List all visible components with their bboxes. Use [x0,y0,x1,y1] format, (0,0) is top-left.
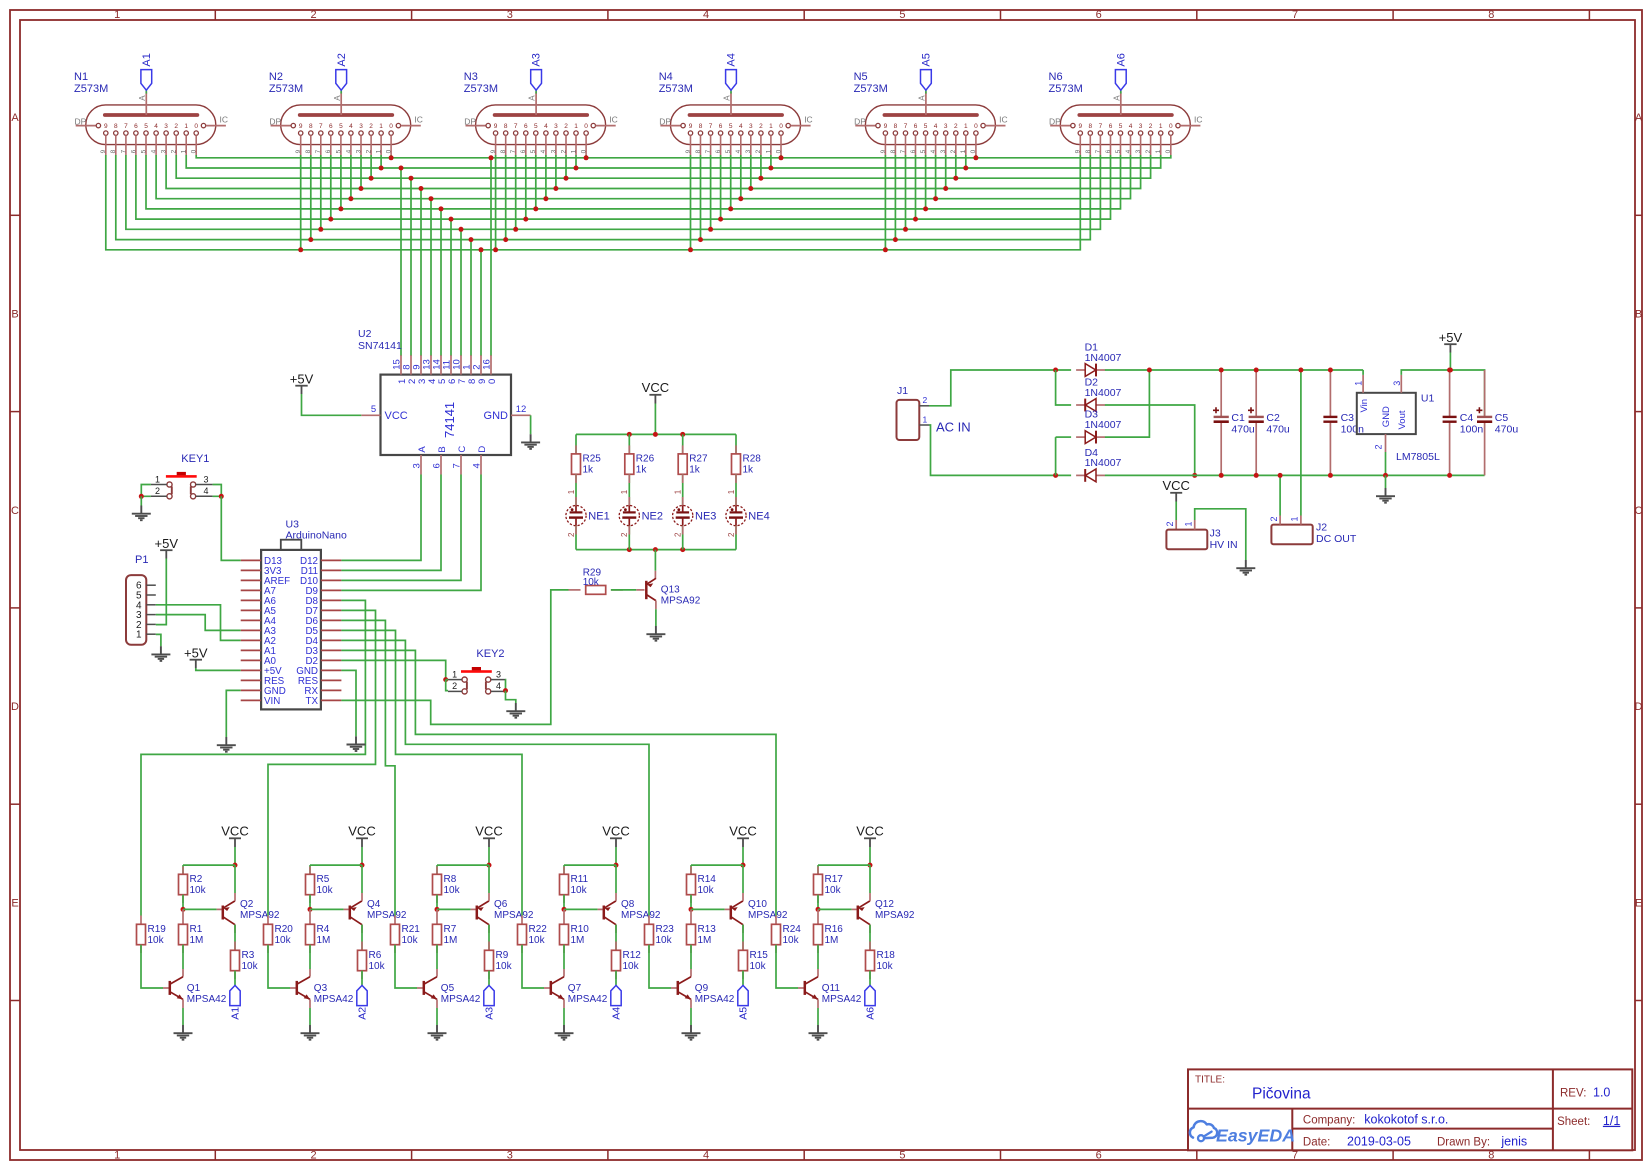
wire to R17 [817,865,819,874]
svg-text:7: 7 [1292,9,1298,21]
svg-text:MPSA42: MPSA42 [695,994,735,1005]
svg-text:5: 5 [899,1149,905,1161]
svg-text:4: 4 [151,149,158,153]
svg-text:7: 7 [900,149,907,153]
svg-text:3: 3 [550,149,557,153]
junction N3 digit 9 [493,247,498,252]
junction N2 digit 2 [369,176,374,181]
junction N3 digit 7 [513,227,518,232]
svg-text:4: 4 [540,149,547,153]
wire rail to R26 [628,434,630,454]
wire R14 to node [690,895,692,910]
svg-text:7: 7 [315,149,322,153]
svg-text:0: 0 [194,123,198,130]
wire node to Q4 base [310,908,344,910]
wire anode N4 [730,90,732,93]
svg-text:1M: 1M [317,935,331,946]
wire D2 to KEY2 [341,660,445,679]
resistor R29 [583,568,606,595]
svg-text:1k: 1k [743,465,755,476]
net flag A6 [1115,70,1126,91]
svg-text:2019-03-05: 2019-03-05 [1347,1134,1411,1148]
wire anode N6 [1120,90,1122,93]
resistor R12 [612,950,642,972]
wire R5 to node [309,895,311,910]
svg-text:A4: A4 [611,1007,623,1020]
wire D8 to R19 [141,600,365,915]
svg-text:Company:: Company: [1303,1114,1355,1126]
svg-text:A2: A2 [336,53,348,66]
svg-text:7: 7 [514,123,518,130]
svg-text:R15: R15 [750,950,769,961]
wire to R8 [436,865,438,874]
svg-text:DP: DP [659,116,671,126]
junction N2 digit 5 [338,206,343,211]
wire bus digit 8 to U2 [470,240,472,356]
wire node to Q12 base [818,908,852,910]
svg-text:3: 3 [1392,381,1402,386]
svg-text:12: 12 [516,404,527,415]
junction [680,432,685,437]
svg-text:Q4: Q4 [367,899,381,910]
svg-text:N2: N2 [269,71,283,83]
resistor R26 [625,454,655,476]
wire N3 pin 2 [565,155,567,178]
wire KEY1 to D13 [221,496,240,560]
svg-text:1: 1 [727,489,736,494]
wire R2 to node [182,895,184,910]
wire R13 to Q9 collector [690,945,692,969]
wire R11 to node [563,895,565,910]
capacitor C3 [1323,370,1364,475]
junction N3 digit 8 [503,237,508,242]
svg-text:8: 8 [1488,9,1494,21]
junction N5 digit 6 [913,217,918,222]
svg-text:6: 6 [1105,149,1112,153]
svg-text:MPSA92: MPSA92 [240,910,280,921]
svg-text:9: 9 [104,123,108,130]
svg-text:10k: 10k [783,935,800,946]
svg-text:1: 1 [960,149,967,153]
svg-text:4: 4 [544,123,548,130]
nixie tube N1 Z573M [75,93,229,156]
wire VCC to Q6 emitter [488,865,490,893]
wire D7 to R20 [268,610,376,915]
resistor R1 [179,924,204,946]
svg-text:0: 0 [970,149,977,153]
svg-text:A6: A6 [1115,53,1127,66]
svg-text:10k: 10k [583,577,600,588]
wire D10 to U2 C [341,475,461,581]
resistor R7 [433,924,458,946]
svg-text:C: C [11,505,19,517]
svg-text:D: D [1635,701,1643,713]
svg-text:16: 16 [482,359,493,370]
wire NE4 to rail [735,526,737,550]
svg-text:5: 5 [729,123,733,130]
wire R1 to Q1 collector [182,945,184,969]
svg-text:VCC: VCC [642,380,669,395]
svg-text:5: 5 [530,149,537,153]
push button KEY1 [151,453,213,499]
junction N4 digit 7 [708,227,713,232]
junction N2 digit 7 [318,227,323,232]
wire N2 pin 7 [320,155,322,229]
svg-text:+5V: +5V [184,646,208,661]
wire bus digit 3 to U2 [420,189,422,357]
svg-text:2: 2 [923,395,928,405]
wire N3 pin 6 [525,155,527,219]
junction N2 digit 8 [308,237,313,242]
svg-text:8: 8 [695,149,702,153]
junction [1447,473,1452,478]
svg-text:5: 5 [725,149,732,153]
svg-text:1N4007: 1N4007 [1085,419,1122,431]
junction [1219,368,1224,373]
net flag A4 [611,985,621,1005]
wire Q3 emitter to ground [309,1008,311,1025]
svg-text:2: 2 [1165,521,1175,526]
junction N3 digit 1 [574,166,579,171]
svg-text:10k: 10k [275,935,292,946]
svg-text:2: 2 [1145,149,1152,153]
svg-text:5: 5 [924,123,928,130]
svg-text:3: 3 [496,669,501,679]
ground block 3 [428,1025,447,1040]
junction U2 digit 5 [439,206,444,211]
svg-text:0: 0 [775,149,782,153]
svg-text:2: 2 [564,123,568,130]
title block texts [1195,1075,1620,1149]
svg-text:5: 5 [1115,149,1122,153]
svg-text:VCC: VCC [602,824,629,839]
svg-text:10k: 10k [825,885,842,896]
wire P1 pin1 to ground [156,634,161,646]
svg-text:7: 7 [510,149,517,153]
svg-text:VCC: VCC [385,410,408,422]
wire to ground sym [1385,475,1387,488]
svg-text:SN74141: SN74141 [358,340,402,352]
junction VCC block 4 [614,863,619,868]
svg-text:R17: R17 [825,874,844,885]
svg-text:6: 6 [1109,123,1113,130]
svg-text:5: 5 [335,149,342,153]
svg-text:R20: R20 [275,924,294,935]
wire Q2 collector to R3 [234,925,236,951]
junction [627,432,632,437]
driver IC U2 SN74141 [358,328,531,475]
svg-text:A: A [138,95,147,101]
svg-text:R1: R1 [190,924,203,935]
wire anode N5 [925,90,927,93]
net flag A2 [357,985,367,1005]
svg-text:J3: J3 [1210,528,1221,540]
wire N4 pin 5 [730,155,732,209]
transistor Q10 [731,899,788,925]
svg-text:1: 1 [1155,149,1162,153]
svg-text:4: 4 [345,149,352,153]
svg-text:10k: 10k [571,885,588,896]
bus wire digit 6 [136,155,1111,219]
wire U3 GND right [341,670,356,736]
wire TX to R29 [341,590,568,725]
svg-text:R7: R7 [444,924,457,935]
svg-text:1M: 1M [190,935,204,946]
svg-text:4: 4 [930,149,937,153]
wire rail to Vin [1362,370,1364,375]
resistor R21 [391,924,421,946]
svg-text:Q1: Q1 [187,983,201,994]
svg-text:10k: 10k [656,935,673,946]
wire anode N2 [340,90,342,93]
svg-text:VCC: VCC [1162,478,1189,493]
svg-text:1: 1 [620,489,629,494]
svg-text:8: 8 [110,149,117,153]
svg-text:470u: 470u [1266,423,1290,435]
svg-text:2: 2 [620,532,629,537]
svg-text:1: 1 [114,9,120,21]
ground block 5 [682,1025,701,1040]
svg-text:1M: 1M [825,935,839,946]
wire Q11 emitter to ground [817,1008,819,1025]
svg-text:A: A [528,95,537,101]
net flag A3 [531,70,542,91]
junction D2 GND [1192,473,1197,478]
wire VCC rail block 5 [691,864,743,866]
svg-text:J2: J2 [1316,522,1327,534]
wire D11 to U2 B [341,475,441,571]
wire N4 pin 7 [710,155,712,229]
resistor R14 [687,874,717,896]
junction N5 digit 2 [953,176,958,181]
wire P1 pin4 to A2 [156,605,241,641]
svg-text:NE1: NE1 [588,510,609,522]
resistor R19 [137,924,167,946]
transistor Q1 [170,977,227,1005]
junction N2 digit 9 [298,247,303,252]
junction N4 digit 6 [718,217,723,222]
junction N2 digit 6 [328,217,333,222]
svg-text:GND: GND [1381,406,1392,427]
wire R8 to node [436,895,438,910]
svg-text:470u: 470u [1231,423,1255,435]
wire to R14 [690,865,692,874]
svg-text:10k: 10k [623,961,640,972]
svg-text:9: 9 [299,123,303,130]
transistor Q2 [223,899,280,925]
wire rail to R25 [575,434,577,454]
wire NE1 to rail [575,526,577,550]
svg-text:6: 6 [910,149,917,153]
ground at KEY2 [506,703,525,718]
svg-text:7: 7 [705,149,712,153]
svg-text:2: 2 [174,123,178,130]
svg-text:10k: 10k [496,961,513,972]
svg-text:2: 2 [155,486,160,496]
svg-text:R8: R8 [444,874,457,885]
svg-text:Date:: Date: [1303,1136,1331,1148]
svg-text:100n: 100n [1460,423,1484,435]
svg-text:8: 8 [305,149,312,153]
svg-text:6: 6 [134,123,138,130]
wire Q1 emitter to ground [182,1008,184,1025]
wire N3 pin 5 [535,155,537,209]
svg-text:A: A [918,95,927,101]
svg-text:Z573M: Z573M [464,83,498,95]
neon bulb NE2 [619,489,663,537]
svg-text:Z573M: Z573M [659,83,693,95]
connector J1 [897,385,971,440]
wire Q5 emitter to ground [436,1008,438,1025]
wire N3 pin 1 [575,155,577,168]
junction N3 digit 0 [584,155,589,160]
svg-text:N3: N3 [464,71,478,83]
svg-text:1: 1 [574,123,578,130]
svg-text:1: 1 [1184,521,1194,526]
svg-text:0: 0 [389,123,393,130]
wire Q9 emitter to ground [690,1008,692,1025]
svg-text:Vin: Vin [1359,399,1370,413]
svg-text:GND: GND [484,410,509,422]
svg-text:Q13: Q13 [661,585,680,596]
svg-text:A4: A4 [726,53,738,66]
svg-text:2: 2 [755,149,762,153]
junction N3 digit 3 [553,186,558,191]
svg-text:3: 3 [355,149,362,153]
wire D5 to R22 [341,630,522,915]
svg-text:MPSA92: MPSA92 [367,910,407,921]
svg-text:5: 5 [920,149,927,153]
svg-text:7: 7 [120,149,127,153]
svg-text:6: 6 [520,149,527,153]
wire N4 pin 8 [700,155,702,240]
svg-text:R16: R16 [825,924,844,935]
wire R12 to flag [615,971,617,986]
wire NE3 to rail [682,526,684,550]
svg-text:5: 5 [371,404,376,415]
junction [1219,473,1224,478]
junction base node block 1 [181,907,186,912]
svg-text:N5: N5 [854,71,868,83]
wire R29 to Q13 base [611,589,636,591]
neon bottom rail [576,549,736,551]
svg-text:1N4007: 1N4007 [1085,387,1122,399]
svg-text:R28: R28 [743,454,762,465]
svg-text:kokokotof s.r.o.: kokokotof s.r.o. [1364,1112,1448,1126]
svg-text:10k: 10k [698,885,715,896]
wire KEY2 right loop [504,680,506,691]
svg-text:7: 7 [124,123,128,130]
svg-text:IC: IC [1194,115,1203,125]
svg-text:9: 9 [295,149,302,153]
svg-text:6: 6 [524,123,528,130]
svg-text:10k: 10k [242,961,259,972]
wire rail to R27 [682,434,684,454]
svg-text:10k: 10k [317,885,334,896]
wire N3 pin 7 [515,155,517,229]
wire N4 pin 9 [690,155,692,250]
wire VCC down block 4 [615,847,617,865]
wire R6 to flag [361,971,363,986]
resistor R16 [814,924,844,946]
svg-text:DP: DP [1049,116,1061,126]
svg-text:0: 0 [191,149,198,153]
svg-text:7: 7 [709,123,713,130]
junction N4 digit 8 [698,237,703,242]
resistor R17 [814,874,844,896]
svg-text:A6: A6 [865,1007,877,1020]
svg-text:IC: IC [609,115,618,125]
junction D3 top [1147,368,1152,373]
svg-text:7: 7 [904,123,908,130]
svg-text:10k: 10k [402,935,419,946]
svg-text:2: 2 [954,123,958,130]
wire D3 to R24 [341,650,776,915]
svg-text:Sheet:: Sheet: [1557,1116,1590,1128]
svg-text:4: 4 [735,149,742,153]
svg-text:VCC: VCC [729,824,756,839]
junction U2 digit 9 [479,247,484,252]
resistor R27 [678,454,708,476]
svg-text:N1: N1 [74,71,88,83]
svg-text:R2: R2 [190,874,203,885]
svg-text:3: 3 [944,123,948,130]
svg-text:MPSA42: MPSA42 [314,994,354,1005]
bus wire digit 4 [156,155,1130,199]
capacitor C1 [1213,370,1255,475]
wire KEY2 to ground [506,691,516,703]
svg-text:0: 0 [487,379,498,384]
junction U2 digit 1 [399,166,404,171]
junction U2 digit 4 [429,196,434,201]
svg-text:4: 4 [1129,123,1133,130]
wire U2 GND down [530,415,532,434]
svg-text:7: 7 [1095,149,1102,153]
bus wire digit 0 [196,155,1171,158]
transistor Q7 [551,977,608,1005]
wire N2 pin 5 [340,155,342,209]
junction KEY1 right [219,494,224,499]
svg-text:3: 3 [507,1149,513,1161]
svg-text:E: E [1635,897,1642,909]
svg-text:Q10: Q10 [748,899,767,910]
wire VCC to Q10 emitter [742,865,744,893]
wire KEY2 left loop [446,680,448,691]
svg-text:Q5: Q5 [441,983,455,994]
wire NE2 to rail [628,526,630,550]
wire VCC to Q12 emitter [869,865,871,893]
svg-text:3: 3 [507,9,513,21]
svg-text:470u: 470u [1495,423,1519,435]
neon bulb NE1 [566,489,610,537]
svg-text:VCC: VCC [221,824,248,839]
svg-text:R6: R6 [369,950,382,961]
wire N2 pin 9 [300,155,302,250]
junction [1328,368,1333,373]
wire N2 pin 6 [330,155,332,219]
wire N2 pin 1 [380,155,382,168]
svg-text:9: 9 [884,123,888,130]
wire +5V to P1 pin2 [156,559,167,625]
svg-text:A: A [1635,112,1643,124]
svg-text:Q7: Q7 [568,983,582,994]
ground at U3 left [217,737,236,752]
svg-text:5: 5 [140,149,147,153]
svg-text:1: 1 [674,489,683,494]
wire D3 to AC1 [1055,437,1057,475]
svg-text:Q9: Q9 [695,983,709,994]
wire R10 to Q7 collector [563,945,565,969]
